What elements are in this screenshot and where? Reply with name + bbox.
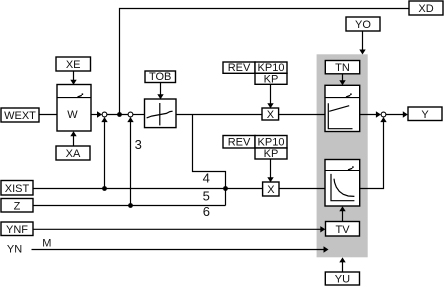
svg-text:X: X [267, 109, 275, 121]
svg-text:KP: KP [264, 148, 279, 160]
svg-text:XIST: XIST [5, 183, 30, 195]
svg-text:XA: XA [66, 148, 81, 160]
svg-text:YNF: YNF [6, 224, 28, 236]
svg-text:KP10: KP10 [258, 137, 285, 149]
svg-text:REV: REV [228, 137, 251, 149]
svg-text:YO: YO [355, 19, 371, 31]
svg-text:5: 5 [203, 188, 210, 203]
svg-text:TN: TN [335, 62, 350, 74]
svg-text:TOB: TOB [149, 71, 171, 83]
svg-text:4: 4 [203, 171, 210, 186]
svg-text:3: 3 [135, 137, 142, 152]
svg-text:XE: XE [66, 59, 81, 71]
svg-text:XD: XD [418, 3, 433, 15]
svg-text:YU: YU [335, 274, 350, 286]
svg-text:TV: TV [335, 224, 350, 236]
svg-text:M: M [42, 237, 51, 249]
svg-text:Z: Z [14, 200, 21, 212]
svg-text:X: X [267, 184, 275, 196]
svg-text:KP: KP [264, 73, 279, 85]
svg-text:Y: Y [421, 109, 429, 121]
svg-text:W: W [67, 109, 78, 121]
svg-text:YN: YN [7, 243, 22, 255]
svg-text:6: 6 [203, 204, 210, 219]
svg-text:WEXT: WEXT [4, 110, 36, 122]
svg-text:REV: REV [228, 62, 251, 74]
